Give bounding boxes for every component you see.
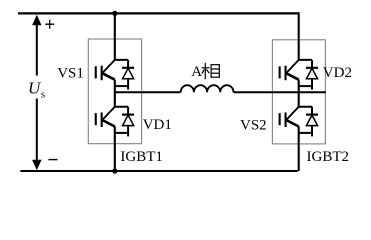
svg-text:VD1: VD1 xyxy=(143,117,172,133)
svg-text:IGBT2: IGBT2 xyxy=(307,149,350,165)
svg-text:VS1: VS1 xyxy=(57,66,84,82)
svg-text:A: A xyxy=(191,64,202,80)
svg-text:IGBT1: IGBT1 xyxy=(120,149,162,165)
svg-text:VS2: VS2 xyxy=(240,118,267,134)
svg-text:VD2: VD2 xyxy=(323,65,352,81)
svg-text:U: U xyxy=(28,79,42,98)
svg-text:s: s xyxy=(41,88,45,100)
